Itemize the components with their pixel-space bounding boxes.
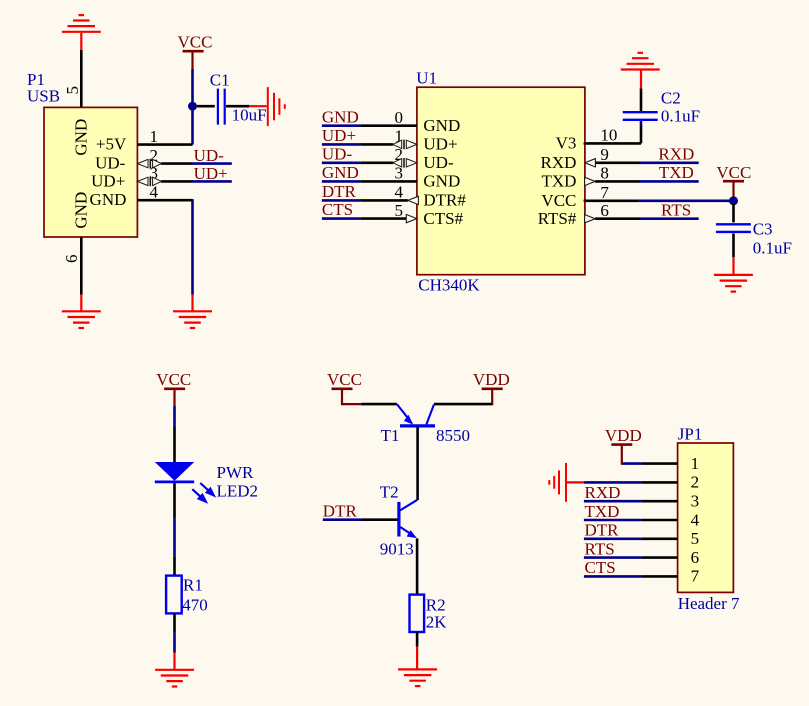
pin 9 arrow <box>585 159 596 167</box>
svg-text:5: 5 <box>63 86 82 95</box>
svg-text:8550: 8550 <box>436 426 470 445</box>
capacitor C1 left pin <box>197 105 215 108</box>
svg-text:Header 7: Header 7 <box>678 594 740 613</box>
svg-text:7: 7 <box>691 567 700 586</box>
svg-text:VDD: VDD <box>605 426 642 445</box>
ground stub <box>80 295 82 311</box>
U1 pin 5 <box>360 217 406 220</box>
capacitor C3 bottom pin <box>732 234 735 258</box>
JP1 pin 7 <box>641 575 677 578</box>
U1 pin 8 <box>595 180 639 183</box>
JP1 pin 3 <box>641 500 677 503</box>
U1 pin 2 <box>360 162 393 165</box>
svg-text:RXD: RXD <box>585 483 621 502</box>
svg-text:UD-: UD- <box>423 153 454 172</box>
ground stub <box>249 105 267 107</box>
svg-text:DTR: DTR <box>323 501 358 520</box>
svg-text:VCC: VCC <box>327 370 362 389</box>
pin 6 arrow <box>585 215 596 223</box>
svg-text:UD-: UD- <box>194 146 225 165</box>
svg-text:DTR#: DTR# <box>423 191 466 210</box>
svg-text:GND: GND <box>423 116 460 135</box>
capacitor C2 <box>623 112 658 120</box>
connector P1 body <box>44 107 137 237</box>
svg-text:RTS: RTS <box>585 539 615 558</box>
svg-text:C2: C2 <box>661 88 681 107</box>
VDD stub <box>621 445 623 465</box>
wire net UD+ (U1 pin 1) <box>322 143 361 146</box>
svg-text:1: 1 <box>150 127 159 146</box>
ground stub <box>566 481 584 483</box>
wire pin 3 <box>161 180 192 183</box>
svg-text:USB: USB <box>27 87 60 106</box>
wire net DTR (U1 pin 4) <box>322 199 361 202</box>
pin 1 I/O arrow <box>393 140 417 150</box>
wire net TXD <box>640 180 699 183</box>
svg-text:DTR: DTR <box>322 182 357 201</box>
wire pin 1 (+5V) <box>137 143 192 146</box>
VDD stub <box>491 389 493 405</box>
ground (R1) <box>155 670 194 687</box>
svg-text:8: 8 <box>600 164 609 183</box>
wire <box>342 403 362 405</box>
JP1 pin 4 <box>641 519 677 522</box>
svg-text:RTS: RTS <box>661 200 691 219</box>
pin 4 arrow <box>408 196 419 204</box>
power VCC <box>183 50 204 53</box>
ground (USB pin 4) <box>173 311 212 328</box>
capacitor C1 right pin <box>226 105 249 108</box>
U1 pin 0 <box>360 124 417 127</box>
JP1 pin 2 <box>641 481 677 484</box>
wire net RXD <box>640 162 699 165</box>
ground stub <box>416 647 418 669</box>
svg-text:GND: GND <box>71 192 90 229</box>
svg-text:VCC: VCC <box>716 163 751 182</box>
svg-text:2: 2 <box>691 473 700 492</box>
svg-text:9013: 9013 <box>380 540 414 559</box>
svg-text:VCC: VCC <box>541 191 576 210</box>
svg-text:6: 6 <box>600 201 609 220</box>
svg-text:U1: U1 <box>416 69 437 88</box>
svg-text:UD-: UD- <box>95 154 126 173</box>
LED2 cathode pin <box>173 483 176 518</box>
resistor R2 bottom pin <box>416 632 419 647</box>
ground stub <box>640 70 642 88</box>
svg-text:3: 3 <box>691 492 700 511</box>
wire pin 6 <box>80 237 83 295</box>
svg-text:10: 10 <box>600 126 617 145</box>
VCC stub <box>732 181 734 197</box>
wire to T1 collector <box>434 403 492 406</box>
wire net UD- <box>193 162 232 165</box>
svg-text:RTS#: RTS# <box>538 209 577 228</box>
capacitor C2 top pin <box>640 88 643 111</box>
svg-text:T1: T1 <box>381 426 400 445</box>
U1 pin 4 <box>360 199 408 202</box>
wire pin 5 <box>80 50 83 107</box>
wire pin1 to VCC node <box>191 105 194 144</box>
svg-text:C1: C1 <box>210 70 230 89</box>
wire net CTS (U1 pin 5) <box>322 217 361 220</box>
VCC stub <box>173 389 175 406</box>
resistor R2 <box>410 595 425 632</box>
wire to ground <box>584 481 642 484</box>
wire net VDD <box>622 462 642 465</box>
U1 pin 7 <box>584 200 639 203</box>
wire net RTS <box>640 217 699 220</box>
U1 pin 1 <box>360 143 393 146</box>
U1 pin 6 <box>595 217 639 220</box>
wire net GND (U1 pin 0) <box>322 124 361 127</box>
svg-text:0.1uF: 0.1uF <box>753 239 792 258</box>
wire VCC <box>191 69 194 105</box>
capacitor C3 top pin <box>732 204 735 223</box>
wire net CTS <box>584 575 642 578</box>
node VCC/C3 junction <box>729 196 738 205</box>
svg-text:2K: 2K <box>426 613 448 632</box>
JP1 pin 1 <box>641 462 677 465</box>
wire net GND (U1 pin 3) <box>322 180 361 183</box>
svg-text:GND: GND <box>423 172 460 191</box>
svg-text:T2: T2 <box>380 482 399 501</box>
resistor R1 bottom pin <box>173 613 176 632</box>
ground stub <box>173 653 175 670</box>
transistor T2 (NPN 9013) <box>399 500 417 537</box>
wire net UD+ <box>193 180 232 183</box>
svg-text:470: 470 <box>182 596 208 615</box>
header JP1 body <box>678 443 734 592</box>
pin 2 I/O arrow <box>137 159 161 169</box>
wire net RTS <box>584 556 642 559</box>
svg-text:5: 5 <box>691 529 700 548</box>
resistor R1 <box>166 576 182 614</box>
svg-text:CTS: CTS <box>322 200 353 219</box>
U1 pin 10 wire <box>584 142 641 145</box>
svg-text:UD-: UD- <box>322 144 353 163</box>
VCC stub <box>191 52 193 70</box>
power VCC <box>723 180 744 183</box>
power VDD <box>482 387 503 390</box>
svg-text:4: 4 <box>150 182 159 201</box>
wire net TXD <box>584 519 642 522</box>
LED2 emission arrows <box>192 483 214 502</box>
svg-text:R1: R1 <box>183 576 203 595</box>
svg-text:V3: V3 <box>556 134 577 153</box>
ground (USB pin 6) <box>62 311 101 328</box>
svg-text:RXD: RXD <box>540 153 576 172</box>
svg-text:10uF: 10uF <box>232 106 267 125</box>
svg-text:GND: GND <box>90 190 127 209</box>
svg-text:UD+: UD+ <box>423 135 457 154</box>
pin 3 I/O arrow <box>137 177 161 187</box>
wire net VCC <box>639 200 734 203</box>
wire net UD- (U1 pin 2) <box>322 162 361 165</box>
svg-text:CH340K: CH340K <box>418 276 480 295</box>
ground (C1) <box>268 87 285 126</box>
svg-text:+5V: +5V <box>96 135 127 154</box>
IC U1 body <box>417 87 585 275</box>
svg-text:0.1uF: 0.1uF <box>661 107 700 126</box>
svg-text:TXD: TXD <box>659 163 694 182</box>
capacitor C2 bottom pin <box>640 126 643 144</box>
wire <box>640 121 643 125</box>
svg-text:GND: GND <box>322 107 359 126</box>
svg-text:VCC: VCC <box>178 33 213 52</box>
wire to ground <box>191 199 194 295</box>
svg-text:C3: C3 <box>753 220 773 239</box>
svg-text:UD+: UD+ <box>194 164 228 183</box>
svg-text:6: 6 <box>62 255 81 264</box>
wire to T2 base <box>362 518 398 521</box>
U1 pin 9 <box>596 162 640 165</box>
svg-text:JP1: JP1 <box>678 425 703 444</box>
svg-text:PWR: PWR <box>217 463 255 482</box>
transistor T1 (PNP 8550) <box>397 404 435 426</box>
svg-text:4: 4 <box>691 510 700 529</box>
ground stub <box>191 295 193 311</box>
ground (USB pin 5) <box>62 15 101 32</box>
svg-text:4: 4 <box>395 183 404 202</box>
svg-text:UD+: UD+ <box>91 171 125 190</box>
svg-text:RXD: RXD <box>658 144 694 163</box>
wire net DTR <box>323 518 362 521</box>
resistor R1 top pin <box>173 556 176 575</box>
svg-text:LED2: LED2 <box>217 481 259 500</box>
svg-text:GND: GND <box>71 119 90 156</box>
wire pin 2 <box>161 162 192 165</box>
JP1 pin 5 <box>641 537 677 540</box>
wire net RXD <box>584 500 642 503</box>
ground stub <box>80 33 82 50</box>
svg-text:UD+: UD+ <box>322 126 356 145</box>
ground (JP1 pin 2) <box>549 463 566 502</box>
wire T2 emitter to R2 <box>416 538 419 594</box>
svg-text:GND: GND <box>322 163 359 182</box>
svg-text:CTS: CTS <box>585 558 616 577</box>
svg-text:VDD: VDD <box>473 370 510 389</box>
wire <box>173 519 176 557</box>
LED2 anode pin <box>173 427 176 462</box>
LED LED2 <box>155 462 194 481</box>
svg-text:5: 5 <box>395 201 404 220</box>
power VCC <box>164 387 185 390</box>
svg-text:DTR: DTR <box>585 521 620 540</box>
wire <box>173 632 176 652</box>
svg-text:TXD: TXD <box>585 502 620 521</box>
VCC stub <box>341 389 343 405</box>
svg-text:CTS#: CTS# <box>423 209 463 228</box>
pin 2 I/O arrow <box>393 158 417 168</box>
wire T1 base to T2 collector <box>416 427 419 500</box>
wire pin 4 (GND) <box>137 199 192 202</box>
power VDD <box>611 443 632 446</box>
svg-text:9: 9 <box>600 145 609 164</box>
wire <box>173 406 176 427</box>
ground (C2) <box>621 53 660 70</box>
ground stub <box>732 257 734 274</box>
JP1 pin 6 <box>641 556 677 559</box>
wire net DTR <box>584 537 642 540</box>
pin 5 arrow <box>406 214 417 222</box>
svg-text:TXD: TXD <box>541 172 576 191</box>
power VCC <box>332 387 353 390</box>
capacitor C3 <box>716 224 751 232</box>
node VCC/C1 junction <box>188 102 197 111</box>
ground (C3) <box>714 275 753 292</box>
svg-text:VCC: VCC <box>156 370 191 389</box>
wire to T1 emitter <box>362 403 397 406</box>
pin 8 arrow <box>585 177 596 185</box>
svg-text:1: 1 <box>691 454 700 473</box>
capacitor C1 <box>218 89 225 125</box>
svg-text:0: 0 <box>395 108 404 127</box>
svg-text:3: 3 <box>395 164 404 183</box>
U1 pin 3 <box>360 180 417 183</box>
ground (R2) <box>398 669 437 686</box>
svg-text:6: 6 <box>691 548 700 567</box>
svg-text:7: 7 <box>600 183 609 202</box>
